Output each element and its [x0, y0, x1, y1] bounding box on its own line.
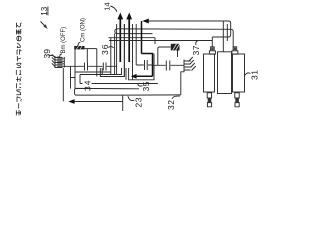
bold path down-right-down	[142, 54, 153, 77]
shaft x=132.5	[132, 24, 134, 80]
gear pair 3	[145, 60, 148, 70]
svg-text:34: 34	[82, 80, 92, 91]
top line L3 shaft 37	[109, 40, 212, 42]
output arrow 2 (bold up)	[128, 19, 130, 62]
pair1 upper link	[86, 49, 88, 63]
top bobbin B	[232, 47, 238, 54]
U2 bracket	[129, 54, 154, 80]
clutch Cm link	[85, 48, 97, 50]
caption モード2におけるトルクの流れ (vertical, reads bottom to top)	[16, 23, 22, 116]
hatched gear element	[171, 44, 180, 51]
pill bus cap	[115, 29, 118, 34]
gear pair 4	[166, 61, 170, 71]
svg-text:37: 37	[191, 45, 201, 55]
shaft x=136.2	[135, 24, 137, 65]
svg-text:35: 35	[141, 81, 151, 91]
bottom bobbin B	[235, 93, 239, 107]
svg-text:36: 36	[100, 44, 110, 55]
vertical x=63.3	[62, 68, 64, 101]
svg-text:Cm (ON): Cm (ON)	[80, 18, 86, 42]
shaft vertical x=70.5 with jog	[71, 66, 76, 88]
arrow bus y=101.5 with left arrow	[74, 95, 123, 111]
output arrow 1 (bold up)	[119, 19, 121, 62]
leader of 14	[110, 6, 117, 12]
cylinder rect1	[204, 54, 215, 92]
brake 39 comb teeth	[55, 58, 64, 68]
left shaft A y=66.3	[64, 65, 116, 67]
top line L2	[118, 29, 234, 47]
top line L1 with left arrow	[148, 20, 229, 22]
box x157.8 top	[158, 47, 171, 65]
shaft x=110.8	[110, 38, 112, 75]
box 34 left	[75, 49, 115, 88]
junction vertical x=223.3	[222, 21, 224, 52]
shaft x=114.6	[114, 34, 116, 75]
leader 32	[172, 96, 180, 99]
shaft x=116.6	[116, 24, 118, 75]
leader 35	[137, 83, 142, 86]
Bm leader squiggle	[56, 54, 62, 58]
bus y=37.7	[109, 37, 156, 39]
svg-text:23: 23	[133, 97, 143, 107]
bold arrow west y=76.3	[136, 75, 153, 77]
riser to top bobbin A	[211, 37, 213, 47]
gear pair 1	[85, 63, 88, 71]
leader 36	[108, 47, 113, 48]
brake 32 hatch wall	[189, 57, 196, 71]
gear pair 3 shaft	[136, 64, 152, 66]
brake 32 zigzag stem	[181, 71, 184, 95]
gear pair 2	[103, 63, 106, 71]
cylinder rect3	[233, 54, 245, 92]
clutch Cm hatched element	[74, 46, 84, 49]
brake 39 hatch wall	[52, 54, 55, 66]
top bobbin A	[209, 47, 215, 54]
brake 32 comb	[183, 60, 185, 72]
gear element stem	[177, 51, 179, 58]
svg-text:32: 32	[166, 100, 176, 110]
bottom bobbin A	[207, 93, 211, 107]
svg-text:31: 31	[250, 70, 260, 80]
pill bus bottom y=33.6	[118, 33, 153, 35]
rounded drum box	[75, 88, 140, 95]
L1 u-turn	[212, 21, 230, 37]
cylinder rect2	[218, 52, 232, 94]
bus y37.7 corner down	[154, 38, 156, 44]
svg-text:39: 39	[42, 49, 52, 59]
leader arrow of 13	[41, 22, 46, 27]
svg-text:14: 14	[102, 2, 111, 10]
junction vertical x=227.3	[226, 24, 228, 41]
svg-text:Bm (OFF): Bm (OFF)	[61, 27, 67, 54]
leader 31	[245, 73, 251, 76]
bold node vertical x=141.5	[141, 21, 143, 54]
U1 bracket outer	[100, 24, 124, 77]
leader 39	[49, 55, 55, 56]
label 13 underline	[47, 7, 49, 16]
vertical x=96.8	[96, 49, 98, 77]
U1 bracket inner	[102, 68, 121, 75]
brake 39 right bar	[63, 57, 65, 68]
Cm leader squiggle	[77, 43, 80, 47]
leader 37	[196, 41, 198, 45]
gear pair 4 shaft	[153, 64, 185, 66]
vertical x126	[125, 68, 127, 80]
shaft 34 line y=83.5	[80, 83, 158, 85]
shaft x=124.4	[123, 24, 125, 77]
bus y=94.9	[77, 94, 181, 96]
leader 23	[128, 96, 134, 100]
brake 39 comb left bar	[54, 56, 56, 68]
